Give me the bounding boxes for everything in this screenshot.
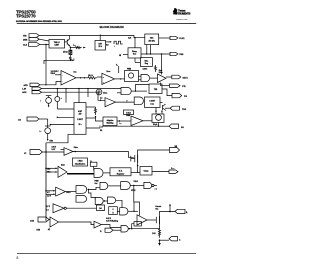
svg-text:TOK: TOK <box>182 109 187 111</box>
label 38.9 ref b <box>47 191 52 198</box>
pin PPD <box>22 87 41 90</box>
wire PPD branch 3 <box>87 89 89 97</box>
gate G12 <box>120 208 128 215</box>
and gate G8 <box>121 182 131 190</box>
svg-text:AOK: AOK <box>22 91 27 94</box>
and gate G9 <box>144 182 152 188</box>
wire into bias reg <box>135 61 140 63</box>
pin VIN <box>170 146 180 153</box>
svg-text:CTL: CTL <box>182 86 187 88</box>
op-amp U29 <box>50 217 59 227</box>
svg-text:−: − <box>132 124 133 126</box>
wire AD out low <box>86 126 100 128</box>
pin VDD <box>23 34 39 38</box>
resistor R1 <box>70 45 85 49</box>
svg-text:250 kHz: 250 kHz <box>149 40 155 42</box>
node G2 branch junction <box>135 90 136 91</box>
svg-text:4.99 k: 4.99 k <box>143 68 148 71</box>
and gate G4 <box>94 169 103 178</box>
svg-text:PWM: PWM <box>95 181 100 183</box>
svg-text:24.9 k: 24.9 k <box>88 74 93 77</box>
svg-text:S: S <box>112 209 113 211</box>
pin CDB <box>22 91 41 94</box>
wire U7 output to PWM ramp box <box>115 78 125 80</box>
svg-text:PWM: PWM <box>126 115 131 117</box>
pin APD <box>24 83 41 87</box>
svg-text:DEN: DEN <box>23 39 28 41</box>
label 1.4V comparator <box>100 97 102 102</box>
gate G10 <box>95 198 103 205</box>
op-amp U19 <box>61 148 74 156</box>
svg-text:4 ms: 4 ms <box>150 102 154 105</box>
node R7 bottom junction <box>159 239 161 241</box>
svg-text:Start: Start <box>61 163 65 166</box>
svg-text:=: = <box>61 98 62 100</box>
op-amp U25 <box>56 187 66 196</box>
svg-text:Det: Det <box>106 43 109 46</box>
pin CTL <box>170 84 187 88</box>
wire AD left input 2 <box>50 124 74 126</box>
node M1 source junction <box>137 165 139 167</box>
wire arrow into U22 upper <box>46 168 58 170</box>
node PPD junction C <box>78 88 79 89</box>
node G14 out junction a <box>129 228 130 229</box>
wire G4 to regulator <box>103 172 110 174</box>
box 1shot small U18 <box>124 110 134 115</box>
node PPD junction A <box>57 88 58 89</box>
wire Q1 emitter to junction <box>69 46 72 48</box>
svg-text:= 1: = 1 <box>155 189 157 191</box>
wire latch to G12 <box>117 210 119 212</box>
wire G12 out <box>128 210 138 212</box>
svg-text:−: − <box>62 81 64 83</box>
node U16 out junction <box>119 120 120 121</box>
wire G5 junction down to G6 <box>89 190 96 200</box>
wire G8 to G9 <box>130 185 144 187</box>
wire M2 drain <box>160 212 176 217</box>
svg-text:Error: Error <box>107 71 111 73</box>
resistor R4 <box>155 65 157 72</box>
wire UVLO ref input <box>55 74 61 76</box>
svg-text:INSTRUMENTS: INSTRUMENTS <box>174 12 191 16</box>
node PPD junction B <box>65 88 66 89</box>
wire RS to G14 <box>113 229 121 231</box>
wire APD to comparator <box>40 82 61 85</box>
op-amp U6 UVLO comparator <box>61 71 76 86</box>
svg-text:SS: SS <box>181 127 184 129</box>
svg-text:www.ti.com: www.ti.com <box>176 18 187 21</box>
box bias regulator U5 <box>140 58 152 67</box>
wire U16 to U17 <box>117 120 131 122</box>
op-amp U13 <box>105 98 116 107</box>
svg-text:4 V: 4 V <box>47 191 50 194</box>
pin PG <box>172 93 187 98</box>
wire latch output branch up <box>133 202 135 211</box>
wire junction down to ramp box <box>134 38 136 48</box>
svg-text:Class: Class <box>103 93 107 95</box>
wire M1 drain rail <box>138 150 170 155</box>
pin ISENSE <box>18 117 39 122</box>
node U6 out junction 1 <box>80 77 81 78</box>
wire U21 to G4 <box>93 166 95 170</box>
transistor M2 <box>156 216 159 224</box>
and gate G3 <box>134 97 143 105</box>
wire G1 to driver <box>150 77 158 79</box>
svg-text:1.5 V/4.5 V: 1.5 V/4.5 V <box>51 70 60 73</box>
gate G11 <box>108 197 116 204</box>
wire G13 to G14 <box>101 225 121 228</box>
node VC bus junction <box>45 151 47 153</box>
svg-text:C: C <box>179 240 181 242</box>
wire AD out top <box>86 106 96 108</box>
and gate G5 <box>76 186 87 194</box>
node bus junction T5a <box>45 168 47 170</box>
svg-text:1.8V: 1.8V <box>22 88 27 90</box>
label T9 refs <box>46 206 51 212</box>
wire CLS bus down <box>45 45 47 85</box>
pin VDD1 <box>169 168 178 173</box>
wire VDD top rail <box>39 36 145 38</box>
wire U17 out <box>143 120 152 122</box>
wire pwm box to G1 second <box>139 79 142 81</box>
node G8 out junction <box>133 185 134 186</box>
wire G8 branch down <box>134 186 140 216</box>
svg-text:50 µA: 50 µA <box>153 123 158 126</box>
wire G9 out bubble <box>152 184 157 190</box>
node APD bus junction <box>45 84 46 85</box>
wire AD box to reference bus <box>46 134 74 143</box>
svg-text:1 SHOT: 1 SHOT <box>149 101 155 103</box>
box TSD U12 <box>149 84 162 94</box>
svg-text:CS: CS <box>18 120 21 122</box>
svg-text:25 k: 25 k <box>99 46 102 48</box>
TI logo <box>173 8 191 15</box>
node U14 leg junction 2 <box>161 110 162 111</box>
wire U29 out <box>59 222 95 225</box>
box detection comparator U1 <box>49 40 65 49</box>
svg-text:Classification: Classification <box>75 162 85 165</box>
wire sense node left <box>44 60 70 64</box>
svg-text:B. E.: B. E. <box>119 170 123 172</box>
wire SS long left <box>102 126 159 128</box>
pin VC2 <box>30 217 49 222</box>
node R6 bottom junction <box>95 116 96 117</box>
wire sense arrow right <box>70 59 74 62</box>
op-amp U27 <box>53 204 66 213</box>
box one-shot U14 <box>145 97 161 108</box>
reference bus vertical <box>45 143 47 221</box>
wire G5 out <box>88 187 101 189</box>
svg-text:+: + <box>106 100 107 102</box>
svg-text:t: t <box>115 45 116 48</box>
wire PPD long <box>42 88 121 90</box>
svg-text:Drive: Drive <box>159 72 163 74</box>
wire ramp box bottom to bias reg <box>134 58 136 62</box>
svg-text:Regulator: Regulator <box>117 172 125 175</box>
svg-text:IL: IL <box>186 212 189 214</box>
label blanking <box>106 218 118 222</box>
pin VSS <box>170 52 184 56</box>
svg-text:t−: t− <box>127 99 129 102</box>
header rule <box>17 22 196 24</box>
pin VC <box>24 150 42 155</box>
gate G14 <box>121 226 128 233</box>
svg-text:−: − <box>106 105 107 107</box>
wire top rail into U2 <box>99 34 101 40</box>
svg-text:+: + <box>103 77 105 79</box>
svg-text:I: I <box>41 101 42 103</box>
wire oscillator to FRS pin <box>159 37 170 39</box>
svg-text:SLVS525A−NOVEMBER 2004−REVISED: SLVS525A−NOVEMBER 2004−REVISED APRIL 200… <box>16 20 63 23</box>
current source CS1 <box>41 96 52 108</box>
wire U2 output arrow <box>106 41 112 46</box>
wire G2 branch up <box>136 85 150 92</box>
node ramp wire junction 1 <box>146 53 147 54</box>
wire U25 to G5 <box>65 191 76 193</box>
wire ISENSE right <box>39 118 48 120</box>
box U31 feedback <box>134 222 141 226</box>
wire pwm box to G1 <box>139 75 142 77</box>
svg-text:CS2: CS2 <box>30 220 35 222</box>
label current out <box>155 205 161 210</box>
svg-text:0.60 V: 0.60 V <box>106 218 112 220</box>
svg-text:PG: PG <box>184 96 187 98</box>
svg-text:Del: Del <box>99 208 102 210</box>
pin CS <box>169 237 181 242</box>
resistor R5 <box>88 74 97 79</box>
footer rule <box>17 252 196 254</box>
pin CLS <box>23 43 40 47</box>
wire R5 to error amp <box>97 76 102 78</box>
buffer U9 gate driver <box>158 74 167 83</box>
svg-text:1 SHOT: 1 SHOT <box>77 119 83 121</box>
node G5 out junction <box>88 189 89 190</box>
svg-text:VDD1: VDD1 <box>171 168 175 170</box>
transistor M1 <box>131 155 138 163</box>
box VB tag U21 <box>90 162 97 166</box>
and gate G7 <box>100 182 108 189</box>
pin SS <box>169 124 184 129</box>
svg-text:UVLO: UVLO <box>134 181 139 183</box>
label 4.66V <box>52 146 58 151</box>
svg-text:CLS: CLS <box>23 45 28 47</box>
svg-text:8: 8 <box>17 256 19 260</box>
node U6 out junction 2 <box>84 77 85 78</box>
node U14 leg junction 1 <box>155 110 156 111</box>
node AD input junction <box>57 117 58 118</box>
svg-text:BLOCK DIAGRAM: BLOCK DIAGRAM <box>100 25 125 29</box>
wire R6 to blanking box <box>96 116 104 121</box>
wire G2 lower input <box>117 92 121 94</box>
wire CTL stub <box>161 85 170 87</box>
wire VB stub <box>118 66 120 73</box>
current source CS0 in PWM box <box>128 73 133 78</box>
label PWM out <box>95 181 100 185</box>
node U7 out junction <box>120 78 121 79</box>
svg-text:3.3 V: 3.3 V <box>52 149 57 151</box>
wire PPD branch 1 <box>65 89 67 103</box>
op-amp U30 <box>137 215 147 225</box>
svg-text:VDD: VDD <box>23 36 26 38</box>
svg-text:ton: ton <box>120 122 122 125</box>
node CLS junction <box>45 44 46 45</box>
box ramp generator U4 <box>128 48 141 58</box>
wire CDB to comparator <box>42 92 105 100</box>
pin IL <box>175 209 189 214</box>
svg-text:R: R <box>112 212 114 214</box>
box blanking U16 <box>103 117 117 126</box>
pin TOK <box>170 106 187 111</box>
label 38.9 ref a <box>47 168 50 173</box>
svg-text:ILIM: ILIM <box>73 45 76 47</box>
svg-text:25 kΩ: 25 kΩ <box>63 52 68 54</box>
current source CS2 <box>55 89 74 109</box>
box detect signature U2 <box>95 41 106 51</box>
wire G10 to G11 <box>103 200 107 202</box>
wire driver bus vertical <box>160 83 162 86</box>
wire M2 source <box>159 224 161 229</box>
node ramp wire junction 2 <box>150 53 151 54</box>
wire G11 out to latch <box>116 200 122 207</box>
svg-text:Reg: Reg <box>145 63 148 65</box>
wire U14 down leg 1 <box>155 108 157 115</box>
wire ISENSE down <box>47 119 49 126</box>
node AD input junction 2 <box>50 124 51 125</box>
label UVLO threshold <box>51 70 60 75</box>
pin RS <box>100 228 113 233</box>
wire U30 to M2 gate <box>147 219 156 221</box>
box U28 <box>97 205 105 211</box>
node R3 bottom junction <box>70 60 71 61</box>
resistor R6 <box>95 107 97 115</box>
label gate drive <box>159 69 163 74</box>
wire arrow up rail <box>169 204 171 212</box>
wire R7 to CS pin <box>160 239 170 241</box>
svg-text:Blanking: Blanking <box>107 123 114 125</box>
wire U19 out long to switch <box>73 152 134 158</box>
wire regulator to box U24 <box>131 172 140 174</box>
wire oscillator leg 1 <box>146 45 148 54</box>
svg-text:1 A: 1 A <box>46 208 49 211</box>
wire CLS to box <box>40 44 49 46</box>
svg-text:R: R <box>100 231 102 233</box>
wire ramp to VSS pin <box>141 53 170 55</box>
wire VB into ramp box <box>123 54 128 56</box>
box soft start current source U15 <box>152 114 164 126</box>
wire G14 out up to U31 <box>132 224 134 229</box>
svg-text:+: + <box>62 75 64 77</box>
svg-text:A/D: A/D <box>79 113 83 116</box>
pin FRS <box>170 36 185 40</box>
svg-text:4 BIT: 4 BIT <box>78 110 82 113</box>
box BE regulator U23 <box>110 168 131 176</box>
and gate G2 <box>121 88 131 95</box>
wire U24 to VDD1 pin <box>152 171 169 173</box>
wire G2 output <box>131 90 147 92</box>
box oscillator U3 <box>145 34 159 45</box>
node Q1 emitter junction <box>70 47 71 48</box>
node SS junction <box>158 126 159 127</box>
svg-text:1 Shot: 1 Shot <box>126 111 131 114</box>
svg-text:GAT1: GAT1 <box>183 77 189 80</box>
wire PPD branch 2 <box>78 89 80 103</box>
wire VC2 to U29 <box>49 219 50 221</box>
node U19 out junction <box>74 151 76 153</box>
resistor R2 <box>63 48 72 56</box>
svg-text:VC: VC <box>24 153 26 155</box>
svg-text:UVLO: UVLO <box>66 192 71 194</box>
svg-text:RTN: RTN <box>50 140 54 142</box>
wire to TOK pin <box>165 107 170 109</box>
transistor Q1 <box>64 36 70 46</box>
op-amp U7 error amplifier <box>102 73 115 84</box>
wire G14 out <box>128 228 160 230</box>
svg-text:RTN: RTN <box>37 229 41 231</box>
svg-text:+: + <box>132 119 133 121</box>
wire driver to GATE pin <box>166 76 172 78</box>
node G10 junction a <box>104 200 105 201</box>
svg-text:Den: Den <box>74 71 77 73</box>
and gate G1 <box>141 75 150 82</box>
svg-text:CLK: CLK <box>128 37 132 39</box>
svg-text:Gen: Gen <box>133 54 136 56</box>
wire arrow into U25 lower <box>46 194 56 196</box>
svg-text:37 s: 37 s <box>78 124 81 126</box>
wire VC to error amp <box>42 151 64 153</box>
and gate G6 <box>76 196 87 203</box>
svg-text:Adaptive: Adaptive <box>107 119 114 122</box>
svg-text:LIMIT: LIMIT <box>54 45 59 47</box>
svg-text:Clamp: Clamp <box>144 171 149 173</box>
svg-text:OSC: OSC <box>150 38 154 40</box>
box A/D converter U10 <box>74 103 86 135</box>
op-amp U17 <box>131 116 143 126</box>
wire arrow into U25 upper <box>46 190 56 192</box>
svg-text:3.9 V: 3.9 V <box>47 195 52 197</box>
svg-text:TPS23770: TPS23770 <box>16 14 36 19</box>
svg-text:Current: Current <box>155 205 161 208</box>
svg-text:VSS: VSS <box>179 54 184 56</box>
wire M1 source down <box>137 163 139 173</box>
svg-text:I =: I = <box>40 131 42 133</box>
wire RTN arrow left <box>48 228 50 231</box>
node bus junction T7 <box>45 190 47 192</box>
wire U14 down leg 2 <box>161 111 163 115</box>
svg-text:SS: SS <box>100 130 102 132</box>
node M2 drain junction <box>169 211 171 213</box>
wire U12 to PG pin <box>162 89 172 96</box>
op-amp U22 <box>58 166 67 177</box>
svg-text:4.66 V: 4.66 V <box>52 146 58 149</box>
resistor R3 sense <box>70 55 72 60</box>
clock waveform symbol <box>114 41 123 48</box>
svg-text:Drive: Drive <box>74 147 78 149</box>
wire bus down to gate driver <box>161 54 163 75</box>
transistor Q2 <box>160 103 166 111</box>
box PWM comparator U8 <box>125 69 139 82</box>
node ramp wire junction 3 <box>161 53 162 54</box>
svg-text:1.4: 1.4 <box>100 97 102 100</box>
node G12 out junction <box>133 211 134 212</box>
node PPD junction D <box>87 88 88 89</box>
resistor R7 <box>159 229 161 237</box>
wire U15 to SS pin <box>158 123 160 127</box>
wire G7 to G8 <box>108 185 121 187</box>
svg-text:VIN: VIN <box>175 146 178 148</box>
svg-text:1.5 V: 1.5 V <box>46 206 51 208</box>
wire SS junction to pin <box>159 125 170 127</box>
svg-text:VB: VB <box>116 65 118 67</box>
